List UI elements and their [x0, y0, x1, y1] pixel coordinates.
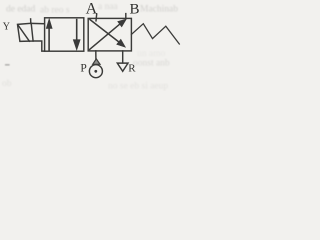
solenoid actuator Y (box with diagonal) — [18, 23, 34, 41]
svg-text:un amo: un amo — [137, 49, 165, 59]
pressure source symbol (triangle + circle + dot) — [89, 59, 102, 78]
svg-text:de edad: de edad — [6, 5, 36, 15]
flow arrow A to R (diagonal, arrowhead lower right) — [90, 20, 125, 48]
svg-text:Machinab: Machinab — [140, 5, 178, 15]
svg-text:Y: Y — [3, 22, 10, 33]
svg-text:R: R — [128, 62, 136, 74]
flow arrow up in box 1 — [46, 19, 52, 50]
port B wire — [125, 14, 127, 19]
flow arrow down in box 1 — [73, 20, 80, 50]
return spring — [132, 24, 180, 44]
svg-text:A: A — [86, 1, 98, 18]
svg-text:oonst anb: oonst anb — [133, 59, 170, 69]
wire solenoid bottom link to valve — [33, 41, 45, 51]
flow arrow P to B (diagonal, arrowhead upper right) — [90, 19, 127, 49]
paper background + faint bleed-through (decorative) — [0, 0, 182, 92]
valve position box 2 (right, crossed arrows) — [88, 18, 131, 51]
svg-text:B: B — [130, 2, 140, 18]
svg-text:P: P — [80, 63, 86, 75]
port R wire — [122, 51, 124, 63]
valve position box 1 (left, parallel arrows) — [45, 18, 84, 51]
svg-text:ab reo s: ab reo s — [40, 6, 70, 16]
svg-text:a naa: a naa — [98, 2, 119, 12]
solenoid pin tick — [30, 19, 32, 24]
port P wire — [95, 51, 97, 59]
wire solenoid top link to valve — [31, 22, 44, 24]
port A wire — [95, 14, 98, 21]
svg-text:no se eb si aeup: no se eb si aeup — [108, 82, 168, 92]
tank / exhaust symbol R — [117, 63, 128, 71]
svg-text:ob: ob — [2, 79, 12, 89]
